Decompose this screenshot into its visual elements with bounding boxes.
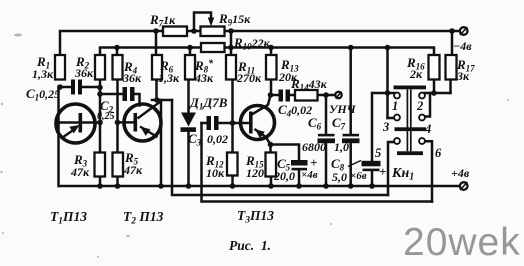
svg-text:Т3П13: Т3П13 [237, 208, 274, 226]
svg-text:6: 6 [435, 146, 442, 160]
svg-text:2: 2 [416, 99, 423, 113]
svg-text:120: 120 [246, 166, 264, 180]
svg-text:×4в: ×4в [301, 169, 318, 181]
svg-text:2к: 2к [409, 67, 423, 81]
svg-text:47к: 47к [123, 163, 143, 177]
svg-text:R71к: R71к [149, 12, 176, 29]
svg-text:3к: 3к [456, 69, 470, 83]
svg-text:1,3к: 1,3к [32, 67, 54, 81]
svg-text:6800: 6800 [302, 140, 326, 154]
svg-text:R1022к: R1022к [233, 35, 271, 52]
svg-text:20,0: 20,0 [273, 169, 295, 183]
svg-text:Рис. 1.: Рис. 1. [229, 238, 271, 253]
svg-text:1,3к: 1,3к [158, 71, 180, 85]
svg-text:C10,25: C10,25 [26, 86, 60, 103]
svg-text:5,0: 5,0 [332, 170, 347, 184]
svg-text:270к: 270к [236, 71, 262, 85]
svg-text:×6в: ×6в [350, 170, 367, 182]
svg-text:+: + [310, 155, 317, 170]
svg-text:36к: 36к [74, 66, 94, 80]
svg-text:36к: 36к [122, 71, 142, 85]
svg-text:Т2 П13: Т2 П13 [123, 209, 164, 227]
svg-text:Т1П13: Т1П13 [50, 209, 87, 227]
svg-text:4: 4 [424, 122, 431, 136]
svg-text:43к: 43к [194, 71, 214, 85]
svg-text:47к: 47к [70, 165, 90, 179]
svg-text:0,25: 0,25 [97, 111, 115, 122]
svg-text:10к: 10к [206, 166, 225, 180]
svg-text:20к: 20к [278, 70, 298, 84]
svg-text:R915к: R915к [218, 11, 251, 28]
svg-text:20wek: 20wek [403, 221, 521, 264]
svg-text:1,0: 1,0 [334, 140, 349, 154]
svg-text:−4в: −4в [453, 39, 472, 53]
svg-text:Д1Д7В: Д1Д7В [189, 95, 228, 112]
svg-text:0,02: 0,02 [207, 132, 228, 146]
svg-text:УНЧ: УНЧ [329, 102, 357, 116]
svg-text:5: 5 [375, 146, 381, 160]
svg-text:+4в: +4в [451, 166, 470, 180]
svg-text:1: 1 [392, 99, 398, 113]
svg-text:3: 3 [382, 120, 389, 134]
svg-text:+: + [379, 164, 386, 179]
